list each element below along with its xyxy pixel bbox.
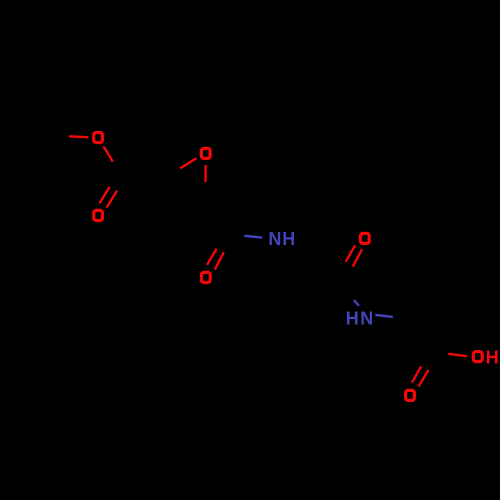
node O amide2 label (360, 233, 369, 243)
wire ester O to carbonyl C (red half-bond) (103, 146, 113, 162)
svg-text:H: H (486, 347, 499, 367)
node O hydroxyl label O (473, 352, 482, 362)
wire ethyl CH2 to ester O (red half-bond) (69, 135, 89, 138)
wire epoxide C3 to O (red half-bond) (204, 165, 206, 182)
wire amide2 C=O double bond line 1 (346, 245, 356, 262)
svg-text:H: H (346, 308, 359, 328)
svg-text:N: N (268, 229, 281, 249)
wire amide2 C=O double bond line 2 (353, 249, 363, 267)
wire amide2 C to N (blue half-bond) (354, 300, 359, 306)
wire amide1 C to N (blue half-bond) (244, 236, 262, 238)
wire amide2 N to CH2 (blue half-bond) (375, 315, 393, 317)
svg-text:H: H (282, 229, 295, 249)
wire epoxide C2 to O (red half-bond) (180, 158, 196, 168)
node O ester label (94, 132, 103, 142)
wire amide1 C=O double bond line 1 (207, 249, 217, 265)
node O amide1 label (201, 272, 210, 282)
svg-text:N: N (360, 308, 373, 328)
wire ester C=O double bond line 2 (107, 191, 118, 208)
node O carboxyl carbonyl label (406, 390, 415, 400)
node O epoxide label (201, 148, 210, 158)
wire carboxyl C=O double bond line 2 (419, 370, 429, 387)
wire amide1 C=O double bond line 2 (215, 252, 224, 269)
wire carboxyl C=O double bond line 1 (412, 367, 421, 383)
wire ester C=O double bond line 1 (100, 187, 110, 204)
node O ester carbonyl label (94, 210, 103, 220)
wire carboxyl C to OH (red half-bond) (448, 354, 467, 356)
